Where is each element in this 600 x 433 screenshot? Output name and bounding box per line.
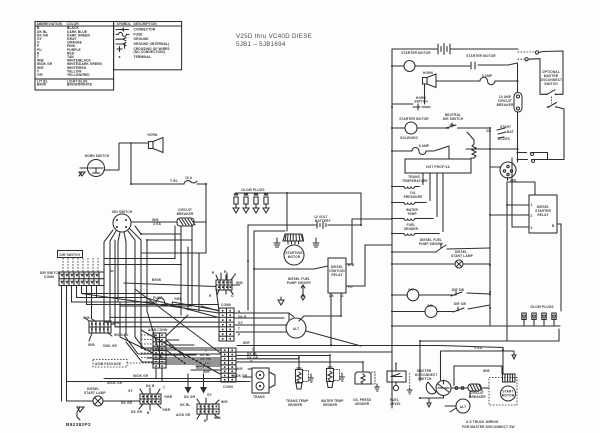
svg-text:GLOW PLUGS: GLOW PLUGS xyxy=(530,305,553,309)
svg-text:GLOW PLUGS: GLOW PLUGS xyxy=(241,188,264,192)
svg-text:FUSE: FUSE xyxy=(134,32,143,36)
svg-text:ON: ON xyxy=(486,129,492,133)
svg-text:DK GR: DK GR xyxy=(131,410,143,414)
svg-text:CONNECTOR: CONNECTOR xyxy=(134,28,156,32)
svg-text:B92382P2: B92382P2 xyxy=(66,422,91,427)
svg-text:DK GR: DK GR xyxy=(247,356,259,360)
svg-text:DIR SWITCH: DIR SWITCH xyxy=(443,117,464,121)
svg-text:ALT: ALT xyxy=(293,327,299,331)
svg-text:DK B: DK B xyxy=(146,384,155,388)
svg-text:CONN: CONN xyxy=(223,385,234,389)
svg-text:U.S TRUCK WIRING: U.S TRUCK WIRING xyxy=(466,420,499,424)
svg-text:HOT PROP-VA: HOT PROP-VA xyxy=(426,165,450,169)
svg-text:Y/BR: Y/BR xyxy=(162,408,171,412)
svg-text:T: T xyxy=(238,327,240,331)
svg-text:5/DK GR: 5/DK GR xyxy=(103,344,118,348)
svg-text:SOLENOID: SOLENOID xyxy=(400,136,418,140)
svg-text:HORN SWITCH: HORN SWITCH xyxy=(85,154,110,158)
svg-text:W/R: W/R xyxy=(203,370,210,374)
svg-text:W/B: W/B xyxy=(483,369,490,373)
svg-text:SENDER: SENDER xyxy=(355,402,370,406)
svg-text:Y/BL: Y/BL xyxy=(174,297,182,301)
svg-text:BR/W: BR/W xyxy=(152,278,161,282)
svg-text:SWITCH: SWITCH xyxy=(414,100,428,104)
svg-text:GROUND: GROUND xyxy=(134,37,150,41)
svg-text:MOTOR: MOTOR xyxy=(502,394,515,398)
svg-text:A/DK GR: A/DK GR xyxy=(176,413,191,417)
svg-text:RELAY: RELAY xyxy=(331,273,343,277)
svg-text:STARTER MOTOR: STARTER MOTOR xyxy=(466,54,496,58)
svg-text:PUMP SW/DRY: PUMP SW/DRY xyxy=(287,281,312,285)
svg-text:SWITCH: SWITCH xyxy=(544,82,558,86)
svg-text:3: 3 xyxy=(531,226,533,230)
svg-text:HORN: HORN xyxy=(423,71,434,75)
svg-text:LEVEL: LEVEL xyxy=(390,402,401,406)
svg-text:PRESSURE: PRESSURE xyxy=(404,195,423,199)
svg-text:TRANS: TRANS xyxy=(253,395,265,399)
svg-text:IGN SWITCH: IGN SWITCH xyxy=(112,210,133,214)
svg-text:HORN: HORN xyxy=(148,133,159,137)
svg-text:2: 2 xyxy=(531,214,533,218)
svg-text:T: T xyxy=(163,386,165,390)
svg-text:DK GR: DK GR xyxy=(121,401,133,405)
svg-text:DK GR: DK GR xyxy=(184,395,196,399)
svg-text:CONN: CONN xyxy=(44,275,55,279)
svg-text:O: O xyxy=(231,294,234,298)
svg-text:ABBREVIATION: ABBREVIATION xyxy=(37,22,63,26)
svg-text:DESCRIPTION: DESCRIPTION xyxy=(134,22,158,26)
svg-text:5 AMP: 5 AMP xyxy=(482,74,493,78)
svg-text:GY: GY xyxy=(207,393,213,397)
svg-text:BREAKER: BREAKER xyxy=(469,395,486,399)
svg-text:5JB1 – 5JB1694: 5JB1 – 5JB1694 xyxy=(236,41,286,48)
svg-text:BREAKER: BREAKER xyxy=(177,212,194,216)
svg-text:SENDER: SENDER xyxy=(288,403,303,407)
svg-text:GY: GY xyxy=(238,321,244,325)
svg-text:SENDER: SENDER xyxy=(404,227,419,231)
svg-text:W/R: W/R xyxy=(236,367,243,371)
svg-text:START LAMP: START LAMP xyxy=(451,254,474,258)
svg-text:GY: GY xyxy=(128,389,134,393)
svg-text:PUMP SW/DRY: PUMP SW/DRY xyxy=(419,242,444,246)
svg-text:W/B: W/B xyxy=(88,343,95,347)
svg-text:GROUND (INTERNAL): GROUND (INTERNAL) xyxy=(134,42,170,46)
svg-text:W/R: W/R xyxy=(243,341,250,345)
svg-text:W/B: W/B xyxy=(236,281,243,285)
svg-text:STARTER MOTOR: STARTER MOTOR xyxy=(399,117,429,121)
svg-text:Y BL: Y BL xyxy=(170,179,178,183)
svg-text:W/DK BL: W/DK BL xyxy=(114,333,129,337)
svg-text:STARTER MOTOR: STARTER MOTOR xyxy=(401,51,431,55)
svg-text:V25D thru VC40D DIESE: V25D thru VC40D DIESE xyxy=(236,33,312,40)
svg-text:5 AMP: 5 AMP xyxy=(419,144,430,148)
svg-text:FOR MASTER DISCONNECT SW: FOR MASTER DISCONNECT SW xyxy=(462,425,515,429)
svg-text:YELLOW/RED: YELLOW/RED xyxy=(67,73,90,77)
svg-text:W/B: W/B xyxy=(214,416,221,420)
svg-text:BREAKER: BREAKER xyxy=(497,103,514,107)
svg-text:TEMPERATURE: TEMPERATURE xyxy=(402,179,428,183)
svg-text:MOTOR: MOTOR xyxy=(288,255,301,259)
svg-text:DIR SW: DIR SW xyxy=(454,302,466,306)
svg-text:Y/BR: Y/BR xyxy=(164,395,173,399)
svg-text:DIR SWITCH: DIR SWITCH xyxy=(60,253,81,257)
svg-text:DIR SW: DIR SW xyxy=(452,288,464,292)
svg-text:1: 1 xyxy=(531,203,533,207)
svg-text:4 GA: 4 GA xyxy=(153,222,162,226)
svg-text:5 GA: 5 GA xyxy=(474,346,483,350)
svg-text:DK BL: DK BL xyxy=(180,403,191,407)
svg-text:DK: DK xyxy=(329,294,334,298)
svg-text:A/DB PACKAGE: A/DB PACKAGE xyxy=(95,362,121,366)
svg-text:START LAMP: START LAMP xyxy=(84,391,107,395)
svg-text:SYMBOL: SYMBOL xyxy=(117,22,132,26)
svg-text:SENDER: SENDER xyxy=(323,403,338,407)
svg-text:ALT: ALT xyxy=(460,405,466,409)
svg-text:(NO CONNECTION): (NO CONNECTION) xyxy=(134,50,165,54)
svg-text:TEMP: TEMP xyxy=(407,212,417,216)
svg-text:15 A: 15 A xyxy=(185,176,193,180)
svg-text:TERMINAL: TERMINAL xyxy=(134,55,152,59)
svg-text:BAT: BAT xyxy=(507,130,514,134)
svg-text:BR/W: BR/W xyxy=(37,83,46,87)
svg-text:BROWN/WHITE: BROWN/WHITE xyxy=(67,83,92,87)
svg-text:Y/R: Y/R xyxy=(37,73,43,77)
svg-text:CONN: CONN xyxy=(221,303,232,307)
svg-text:RELAY: RELAY xyxy=(537,213,549,217)
svg-text:A/DB CONN: A/DB CONN xyxy=(148,328,168,332)
svg-text:W/DK GR: W/DK GR xyxy=(133,374,149,378)
svg-text:W/R: W/R xyxy=(221,400,228,404)
